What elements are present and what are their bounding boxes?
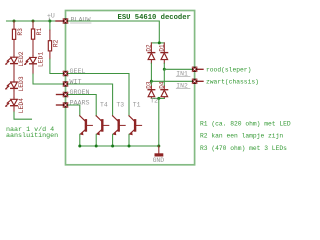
note R1 R2 R3 explanation bbox=[200, 120, 291, 152]
net label GEEL bbox=[70, 68, 86, 76]
LED LED4 bbox=[11, 98, 18, 113]
junction D2 IN2 bbox=[150, 80, 153, 83]
diode D4 bbox=[161, 86, 168, 98]
label T1 bbox=[133, 101, 141, 108]
svg-text:R3: R3 bbox=[17, 28, 24, 36]
wire bridge top connector bbox=[151, 42, 164, 44]
svg-text:WIT: WIT bbox=[70, 78, 82, 86]
svg-text:D2: D2 bbox=[146, 44, 153, 52]
LED2 emission arrows bbox=[5, 58, 10, 64]
port BLAUW bbox=[63, 18, 68, 23]
net label WIT bbox=[70, 78, 82, 86]
LED LED1 bbox=[30, 56, 37, 74]
wire GROEN to T3 collector bbox=[68, 95, 96, 116]
label LED1 bbox=[37, 52, 44, 67]
net label IN2 bbox=[176, 82, 190, 89]
transistor T2 bbox=[129, 116, 142, 146]
junction D1 IN1 bbox=[163, 68, 166, 71]
wire D4 top bbox=[163, 69, 165, 86]
junction at R1 top bbox=[32, 20, 35, 23]
svg-text:GROEN: GROEN bbox=[70, 89, 90, 97]
svg-text:T4: T4 bbox=[100, 101, 108, 108]
diode D2 bbox=[148, 43, 155, 63]
svg-text:LED4: LED4 bbox=[18, 98, 25, 113]
port WIT bbox=[63, 81, 68, 86]
svg-text:R1: R1 bbox=[36, 28, 43, 36]
ground GND bbox=[155, 146, 164, 157]
resistor R2 bbox=[48, 41, 51, 51]
label LED2 bbox=[18, 51, 25, 66]
net label rood(sleper) bbox=[206, 67, 251, 74]
wire D1 to IN1 junction bbox=[163, 63, 165, 69]
wire emitter rail bbox=[80, 145, 159, 147]
svg-text:aansluitingen: aansluitingen bbox=[6, 132, 58, 140]
LED LED2 bbox=[11, 55, 18, 66]
port GEEL bbox=[63, 71, 68, 76]
svg-text:+U: +U bbox=[47, 13, 55, 20]
wire D3 top bbox=[150, 81, 152, 86]
junction T3 emitter bbox=[95, 145, 98, 148]
svg-text:rood(sleper): rood(sleper) bbox=[206, 67, 251, 74]
junction bridge bottom bbox=[157, 97, 160, 100]
LED4 emission arrows bbox=[5, 101, 10, 107]
svg-text:T1: T1 bbox=[133, 101, 141, 108]
resistor R2 lead top bbox=[49, 30, 51, 40]
wire R3 to LED2 bbox=[13, 40, 15, 56]
wire BLAUW to bridge top bbox=[68, 21, 159, 43]
title ESU 54610 decoder bbox=[118, 14, 191, 22]
label GND bbox=[153, 157, 165, 164]
svg-text:R1 (ca. 820 ohm) met LED: R1 (ca. 820 ohm) met LED bbox=[200, 120, 291, 127]
wire +U rail bbox=[7, 20, 57, 22]
svg-text:R2: R2 bbox=[53, 39, 60, 47]
pin stub of port BLAUW bbox=[56, 20, 63, 22]
svg-text:GEEL: GEEL bbox=[70, 68, 86, 76]
wire LED2 to LED3 bbox=[13, 66, 15, 80]
junction at +U / R2 top bbox=[48, 20, 51, 23]
port PAARS bbox=[63, 102, 68, 107]
junction T4 emitter bbox=[78, 145, 81, 148]
resistor R1 lead top bbox=[32, 21, 34, 29]
diode D3 bbox=[148, 86, 155, 98]
svg-text:D4: D4 bbox=[159, 81, 166, 89]
net label IN1 bbox=[176, 70, 190, 77]
junction bridge top bbox=[158, 41, 161, 44]
wire IN1 bbox=[164, 68, 194, 70]
wire PAARS to T4 collector bbox=[68, 105, 80, 116]
transistor T4 bbox=[80, 116, 93, 146]
junction rail to GND bbox=[157, 145, 160, 148]
label D3 bbox=[146, 81, 153, 89]
resistor R2 lead bottom bbox=[49, 51, 51, 59]
decoder module box bbox=[66, 11, 195, 165]
net label PAARS bbox=[70, 99, 90, 107]
wire LED1 to port WIT bbox=[33, 74, 63, 84]
wire GEEL to T2 collector bbox=[68, 74, 129, 116]
label T2 bbox=[150, 98, 158, 105]
svg-text:T2: T2 bbox=[150, 98, 158, 105]
supply +U label bbox=[47, 13, 55, 21]
svg-text:LED1: LED1 bbox=[37, 52, 44, 67]
pin stub of port zwart bbox=[197, 80, 203, 82]
label R2 bbox=[53, 39, 60, 47]
svg-text:R3 (470 ohm) met 3 LEDs: R3 (470 ohm) met 3 LEDs bbox=[200, 145, 287, 152]
LED3 emission arrows bbox=[5, 83, 10, 89]
wire bridge bottom to GND rail bbox=[158, 98, 160, 146]
label LED3 bbox=[18, 76, 25, 91]
label T4 bbox=[100, 101, 108, 108]
junction at R3 top bbox=[13, 20, 16, 23]
port rood bbox=[192, 67, 197, 72]
label R1 bbox=[36, 28, 43, 36]
note naar 1 v/d 4 aansluitingen bbox=[6, 126, 58, 140]
svg-text:R2 kan een lampje zijn: R2 kan een lampje zijn bbox=[200, 133, 283, 140]
net label GROEN bbox=[70, 89, 90, 97]
resistor R1 bbox=[31, 29, 34, 39]
wire LED3 to LED4 bbox=[13, 91, 15, 98]
svg-text:LED2: LED2 bbox=[18, 51, 25, 66]
LED1 emission arrows bbox=[24, 59, 29, 65]
label D4 bbox=[159, 81, 166, 89]
wire bridge bottom connector bbox=[151, 97, 164, 99]
wire LED4 to open end bbox=[14, 112, 32, 119]
junction T1 emitter bbox=[111, 145, 114, 148]
port GROEN bbox=[63, 92, 68, 97]
svg-text:D1: D1 bbox=[158, 44, 165, 52]
junction T2 emitter bbox=[128, 145, 131, 148]
svg-text:D3: D3 bbox=[146, 81, 153, 89]
pin stub of port GROEN bbox=[57, 94, 63, 96]
resistor R3 lead top bbox=[13, 21, 15, 29]
net label zwart(chassis) bbox=[206, 79, 259, 86]
label LED4 bbox=[18, 98, 25, 113]
diode D1 bbox=[161, 43, 168, 63]
wire R1 to LED1 bbox=[32, 40, 34, 56]
label T3 bbox=[116, 101, 124, 108]
wire R2 to port GEEL bbox=[50, 59, 63, 74]
wire IN2 bbox=[151, 80, 194, 82]
svg-text:T3: T3 bbox=[116, 101, 124, 108]
port zwart bbox=[192, 79, 197, 84]
net label BLAUW bbox=[71, 17, 92, 25]
LED LED3 bbox=[11, 80, 18, 91]
resistor R3 bbox=[12, 29, 15, 39]
svg-text:LED3: LED3 bbox=[18, 76, 25, 91]
wire D2 to IN2 junction bbox=[150, 63, 152, 81]
svg-text:GND: GND bbox=[153, 157, 165, 164]
pin stub of port PAARS bbox=[57, 104, 63, 106]
transistor T3 bbox=[96, 116, 109, 146]
label D2 bbox=[146, 44, 153, 52]
transistor T1 bbox=[113, 116, 126, 146]
label D1 bbox=[158, 44, 165, 52]
svg-text:zwart(chassis): zwart(chassis) bbox=[206, 79, 259, 86]
pin stub of port rood bbox=[197, 68, 203, 70]
wire WIT to T1 collector bbox=[68, 84, 112, 116]
label R3 bbox=[17, 28, 24, 36]
wire R2 top bbox=[49, 21, 51, 30]
